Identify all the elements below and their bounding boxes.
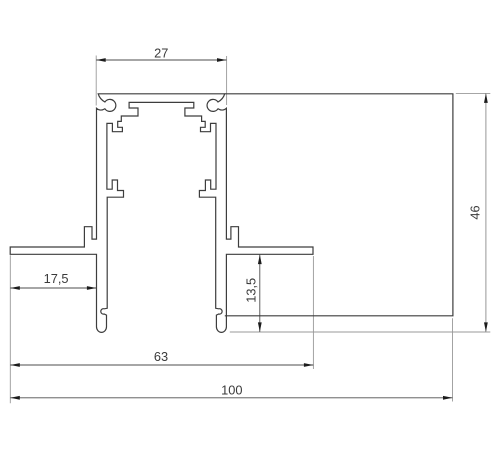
svg-text:13,5: 13,5 bbox=[243, 278, 258, 303]
svg-text:17,5: 17,5 bbox=[44, 271, 69, 286]
svg-text:100: 100 bbox=[221, 383, 242, 398]
svg-text:46: 46 bbox=[468, 205, 483, 219]
svg-text:27: 27 bbox=[154, 46, 168, 61]
svg-text:63: 63 bbox=[154, 349, 168, 364]
